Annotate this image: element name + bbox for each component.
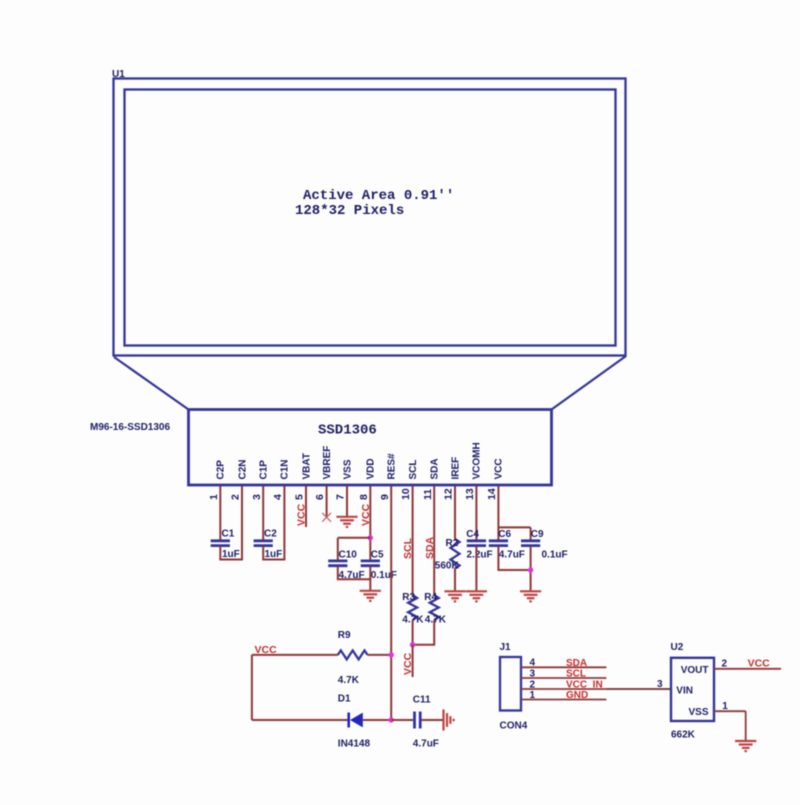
capacitor C6: [489, 539, 508, 542]
svg-text:VCC: VCC: [296, 503, 308, 526]
ground R2: [444, 590, 465, 592]
svg-text:2: 2: [530, 679, 536, 690]
svg-text:SDA: SDA: [424, 536, 436, 559]
svg-text:J1: J1: [500, 642, 512, 653]
svg-text:VIN: VIN: [676, 686, 693, 697]
capacitor C1: [211, 539, 230, 542]
wire C6 bottom: [497, 546, 499, 570]
svg-text:11: 11: [422, 489, 434, 500]
J1 pin 3 wire (SCL): [521, 677, 606, 679]
svg-text:C1N: C1N: [280, 459, 291, 479]
ground sideways C11: [442, 709, 444, 730]
svg-text:6: 6: [314, 494, 326, 500]
wire R2 bottom: [454, 569, 456, 592]
svg-text:VDD: VDD: [366, 458, 377, 479]
svg-text:C1: C1: [222, 529, 235, 540]
wire left drop: [251, 655, 253, 720]
svg-text:VSS: VSS: [688, 707, 708, 718]
wire pin11 SDA: [433, 486, 435, 595]
resistor R2: [451, 539, 460, 569]
svg-text:R9: R9: [338, 630, 351, 641]
svg-text:Active Area 0.91'': Active Area 0.91'': [303, 188, 454, 204]
svg-text:VCOMH: VCOMH: [472, 442, 483, 479]
svg-text:8: 8: [358, 494, 370, 500]
svg-text:9: 9: [379, 494, 391, 500]
svg-text:SDA: SDA: [430, 458, 441, 479]
svg-text:12: 12: [443, 488, 455, 500]
svg-text:VCC: VCC: [360, 503, 372, 526]
wire pin2 C2N: [241, 486, 243, 560]
wire rail C6-C9: [498, 569, 531, 571]
svg-text:4: 4: [272, 494, 284, 500]
svg-text:0.1uF: 0.1uF: [371, 570, 397, 581]
wire R9 to RES#: [368, 654, 392, 656]
svg-text:C9: C9: [531, 529, 544, 540]
svg-text:VCC_IN: VCC_IN: [566, 680, 603, 691]
wire pin1 C2P: [219, 486, 221, 540]
wire branch to C9: [498, 526, 530, 528]
svg-text:C5: C5: [371, 550, 384, 561]
svg-text:1uF: 1uF: [222, 549, 240, 560]
capacitor C11: [413, 712, 416, 729]
resistor R9: [338, 650, 368, 659]
svg-text:SDA: SDA: [566, 658, 587, 669]
svg-text:0.1uF: 0.1uF: [542, 550, 568, 561]
svg-text:C2N: C2N: [237, 459, 248, 479]
wire C5 bottom: [369, 566, 371, 590]
svg-text:SCL: SCL: [408, 460, 419, 480]
diode D1: [347, 713, 350, 728]
wire rail pins 3-4: [262, 559, 285, 561]
svg-text:4.7uF: 4.7uF: [413, 739, 439, 750]
wire rail C10-C5: [337, 578, 371, 580]
svg-text:1uF: 1uF: [265, 549, 283, 560]
J1 pin 1 wire (GND): [521, 699, 606, 701]
wire C11 to ground: [422, 719, 444, 721]
svg-text:C1P: C1P: [259, 460, 270, 480]
wire C10 bottom: [337, 566, 339, 579]
node C6/C9 junction: [528, 567, 533, 572]
display neck right edge: [552, 356, 627, 410]
ground U2: [735, 740, 756, 742]
wire C4 bottom: [475, 546, 477, 591]
svg-text:2: 2: [230, 494, 242, 500]
svg-text:128*32 Pixels: 128*32 Pixels: [295, 203, 404, 219]
svg-text:SSD1306: SSD1306: [318, 423, 377, 439]
wire pin9 RES#: [390, 486, 392, 720]
svg-text:3: 3: [530, 668, 536, 679]
wire pin10 SCL: [412, 486, 414, 595]
J1 pin 4 wire (SDA): [521, 666, 606, 668]
svg-text:4.7K: 4.7K: [425, 615, 447, 626]
svg-text:VCC: VCC: [748, 657, 771, 669]
ground pin7: [336, 516, 357, 518]
wire pin13 VCOMH: [475, 486, 477, 540]
svg-text:C2P: C2P: [216, 460, 227, 480]
node D1/C11 junction: [389, 717, 394, 722]
svg-text:4.7uF: 4.7uF: [499, 550, 525, 561]
capacitor C10: [328, 560, 347, 563]
J1 pin 2 wire (VCC_IN): [521, 688, 606, 690]
wire D1 to node: [363, 719, 391, 721]
svg-text:R4: R4: [424, 592, 437, 603]
svg-text:4: 4: [530, 658, 536, 669]
svg-text:7: 7: [335, 494, 347, 500]
driver block SSD1306: [189, 410, 552, 486]
svg-text:R3: R3: [402, 592, 415, 603]
resistor R3: [408, 595, 417, 620]
wire pin14 VCC: [497, 486, 499, 540]
wire pin8 VDD: [369, 486, 371, 560]
svg-text:D1: D1: [338, 694, 351, 705]
svg-text:C11: C11: [413, 695, 431, 706]
capacitor C9: [521, 539, 540, 542]
svg-text:2.2uF: 2.2uF: [467, 550, 493, 561]
display outer frame: [114, 79, 626, 356]
svg-text:C4: C4: [466, 529, 479, 540]
svg-text:VBREF: VBREF: [322, 446, 333, 480]
U2 pin1 wire VSS: [714, 710, 746, 712]
svg-text:4.7K: 4.7K: [338, 675, 360, 686]
svg-text:2: 2: [722, 658, 728, 669]
svg-text:C6: C6: [498, 529, 511, 540]
svg-text:1: 1: [530, 690, 536, 701]
svg-text:U2: U2: [671, 642, 684, 653]
svg-text:1: 1: [722, 701, 728, 712]
svg-text:C10: C10: [339, 550, 358, 561]
svg-text:GND: GND: [566, 690, 588, 701]
wire R3 bottom: [412, 620, 414, 645]
svg-text:C2: C2: [264, 529, 277, 540]
wire pin3 C1P: [262, 486, 264, 540]
wire C1 bottom: [219, 546, 221, 559]
wire rail R3-R4: [413, 644, 436, 646]
capacitor C2: [254, 539, 273, 542]
svg-text:IN4148: IN4148: [338, 739, 371, 750]
wire C2 bottom: [262, 546, 264, 559]
wire VCC_IN to U2 VIN: [606, 688, 671, 690]
display neck left edge: [114, 357, 189, 410]
node R9/RES# junction: [389, 652, 394, 657]
resistor R4: [430, 595, 439, 620]
ground C9: [520, 590, 541, 592]
wire pin4 C1N: [283, 486, 285, 560]
wire VCC stub: [412, 645, 414, 677]
wire C9 bottom: [530, 546, 532, 591]
wire to C10: [338, 537, 371, 539]
svg-text:VBAT: VBAT: [301, 453, 312, 479]
U2 pin2 wire VOUT: [714, 668, 781, 670]
ground C5/C10: [360, 590, 381, 592]
ground C4: [466, 590, 487, 592]
no-connect X pin6: [322, 513, 331, 522]
svg-text:VCC: VCC: [402, 652, 414, 675]
svg-text:14: 14: [486, 488, 498, 500]
capacitor C5: [361, 560, 380, 563]
svg-text:R2: R2: [446, 538, 459, 549]
svg-text:5: 5: [294, 494, 306, 500]
svg-text:3: 3: [251, 494, 263, 500]
wire pin12 IREF: [454, 486, 456, 539]
svg-text:SCL: SCL: [402, 537, 414, 559]
wire pin5 VBAT: [305, 486, 307, 527]
wire VCC to R9: [252, 654, 338, 656]
svg-text:662K: 662K: [671, 730, 696, 741]
wire R4 bottom: [433, 620, 435, 645]
svg-text:RES#: RES#: [387, 453, 398, 480]
wire node to C11: [391, 719, 413, 721]
svg-text:13: 13: [464, 488, 476, 500]
svg-text:M96-16-SSD1306: M96-16-SSD1306: [90, 422, 170, 433]
wire pin7 VSS: [346, 486, 348, 517]
capacitor C4: [467, 539, 486, 542]
node VDD junction: [368, 535, 373, 540]
wire to D1: [252, 719, 349, 721]
node pull-up junction: [410, 642, 415, 647]
wire rail pins 1-2: [219, 559, 243, 561]
wire pin6 VBREF: [326, 486, 328, 517]
svg-text:SCL: SCL: [566, 669, 586, 680]
svg-text:CON4: CON4: [500, 721, 528, 732]
svg-text:1: 1: [208, 494, 220, 500]
svg-text:IREF: IREF: [450, 457, 461, 480]
svg-text:VSS: VSS: [342, 459, 353, 479]
svg-text:10: 10: [400, 488, 412, 500]
svg-text:VOUT: VOUT: [681, 665, 709, 676]
svg-text:VCC: VCC: [494, 458, 505, 479]
display inner frame (active area): [125, 90, 616, 346]
svg-text:3: 3: [657, 679, 663, 690]
